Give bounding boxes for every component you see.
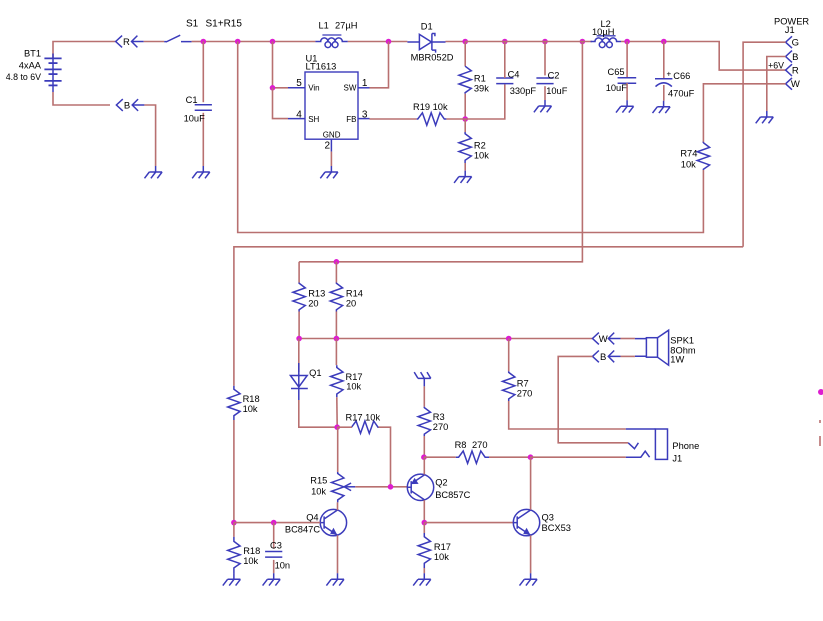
node (clipped, right edge) [818, 389, 823, 395]
op-amp U1 LT1613 box [305, 72, 358, 139]
wire W rail to R17 [335, 339, 337, 366]
svg-text:10k: 10k [243, 556, 258, 566]
svg-text:S1: S1 [186, 19, 199, 30]
wire W rail to Q1 [298, 339, 300, 373]
capacitor C3 [265, 552, 282, 558]
wire rail to C4 top [504, 42, 506, 79]
speaker SPK1 [635, 339, 647, 357]
inductor L2 [597, 35, 616, 37]
capacitor C1 [195, 105, 212, 111]
wire to R13 [298, 262, 300, 283]
junction R3/Q2/R8 [421, 454, 427, 460]
wire wiper to Q2 base [355, 486, 407, 488]
svg-text:S1+R15: S1+R15 [206, 19, 243, 30]
svg-text:L1: L1 [319, 21, 329, 31]
svg-text:C4: C4 [508, 69, 520, 79]
svg-text:J1: J1 [785, 25, 795, 35]
wire flag W to speaker [621, 338, 635, 340]
pin B (J1) [786, 51, 792, 63]
svg-text:D1: D1 [421, 22, 433, 32]
svg-text:270: 270 [433, 422, 449, 432]
wire node to Q4 base [234, 522, 320, 524]
wire node to Q3 base [424, 522, 513, 524]
flag R (battery +) [116, 36, 144, 48]
capacitor C4 [496, 78, 513, 84]
resistor R18 (lower) [228, 537, 240, 574]
svg-text:20: 20 [308, 298, 318, 308]
wire Q3 emitter to ground [530, 535, 532, 573]
wire C65 to ground [626, 83, 628, 100]
resistor R13 [293, 283, 305, 312]
junction R17/R15 [334, 424, 340, 430]
wire switch to node VCC [192, 41, 204, 43]
transistor Q3 BCX53 [513, 509, 539, 535]
svg-text:R3: R3 [433, 412, 445, 422]
svg-text:J1: J1 [672, 453, 682, 463]
ground (U1) [320, 166, 338, 178]
junction C66/rail [661, 39, 667, 45]
wire C1 to ground [202, 113, 204, 166]
pin W (J1) [786, 78, 792, 90]
wiper arrow R15 [344, 486, 355, 488]
svg-text:SW: SW [344, 83, 357, 92]
svg-text:Phone: Phone [672, 441, 699, 451]
svg-text:R1: R1 [474, 74, 486, 84]
wire node to R18 lower [233, 523, 235, 537]
junction R14/R17 [334, 336, 340, 342]
resistor R14 [330, 283, 342, 312]
wire U1 GND to ground [330, 152, 332, 166]
svg-text:Vin: Vin [308, 83, 319, 92]
svg-text:Q3: Q3 [542, 513, 554, 523]
ground (C66) [653, 101, 671, 113]
wire node to Q3 collector [530, 457, 532, 510]
svg-text:10uF: 10uF [546, 86, 568, 96]
wire node to phone jack sleeve [531, 456, 626, 458]
flag W (speaker) [593, 333, 621, 345]
svg-text:10n: 10n [275, 561, 291, 571]
svg-text:R: R [792, 66, 799, 77]
svg-text:270: 270 [472, 440, 488, 450]
wire node to R8 [424, 456, 456, 458]
svg-text:MBR052D: MBR052D [411, 53, 454, 63]
ground (C2) [534, 100, 552, 112]
svg-text:3: 3 [362, 110, 368, 121]
wire ground to R3 [423, 386, 425, 406]
wire flag R to switch S1 [144, 41, 165, 43]
junction C4/rail [502, 39, 508, 45]
svg-text:4xAA: 4xAA [19, 61, 42, 71]
junction loop-A/VCC [235, 39, 241, 45]
svg-text:BT1: BT1 [24, 49, 41, 59]
svg-text:4: 4 [296, 110, 302, 121]
wire (clipped stub) [819, 420, 821, 423]
junction R14 top [334, 259, 340, 265]
resistor R8 [456, 451, 489, 463]
wire R3 to R8 node [423, 436, 425, 457]
wire B pin to ground [767, 57, 786, 112]
svg-text:10k: 10k [474, 151, 489, 161]
svg-text:BC847C: BC847C [285, 524, 320, 534]
junction R18/C3 [231, 520, 237, 526]
svg-text:R7: R7 [517, 379, 529, 389]
ground (inverted, R3 top) [414, 372, 431, 386]
junction R1/rail [462, 39, 468, 45]
svg-text:R2: R2 [474, 141, 486, 151]
svg-text:1W: 1W [670, 355, 684, 365]
svg-text:10µH: 10µH [592, 27, 614, 37]
wire node to R17h [337, 426, 352, 428]
svg-text:C2: C2 [548, 70, 560, 80]
pin 5 Vin [288, 87, 305, 89]
wire Q4 emitter to ground [337, 535, 339, 573]
svg-text:Q4: Q4 [306, 512, 318, 522]
wire Q2 collector down [423, 500, 425, 522]
junction C2/rail [542, 39, 548, 45]
diode Q1 [290, 363, 307, 400]
capacitor C66 (polarized) [655, 79, 672, 87]
svg-text:27µH: 27µH [335, 21, 357, 31]
svg-text:R17 10k: R17 10k [346, 413, 381, 423]
svg-text:R8: R8 [455, 440, 467, 450]
svg-text:+6V: +6V [768, 60, 784, 70]
wire R19 to node [446, 118, 465, 120]
svg-text:10k: 10k [434, 552, 449, 562]
svg-text:SPK1: SPK1 [670, 336, 694, 346]
wire Vin to SH [273, 88, 289, 119]
svg-text:2: 2 [324, 141, 330, 152]
wire R7 to phone jack tip [509, 401, 626, 429]
svg-text:Q1: Q1 [309, 368, 321, 378]
pin 4 SH [288, 118, 305, 120]
pin 1 SW [358, 87, 370, 89]
wire (clipped segment) [819, 436, 821, 446]
svg-text:B: B [124, 100, 130, 111]
svg-text:4.8 to 6V: 4.8 to 6V [6, 72, 41, 82]
resistor R17 (upper) [331, 365, 343, 397]
svg-text:5: 5 [296, 78, 302, 89]
svg-text:Q2: Q2 [435, 477, 447, 487]
ground (R18) [223, 573, 241, 585]
resistor R74 [697, 143, 709, 170]
svg-text:BC857C: BC857C [435, 490, 470, 500]
capacitor C2 [536, 78, 553, 84]
wire D1 to R1 [446, 41, 466, 43]
resistor R15 (pot) [332, 472, 344, 502]
resistor R2 [459, 132, 471, 163]
resistor R17 (lower) [418, 533, 430, 568]
ground (B pin) [756, 111, 774, 123]
svg-text:10k: 10k [243, 404, 258, 414]
svg-text:R18: R18 [243, 546, 260, 556]
wire battery + to flag R [53, 42, 116, 59]
wire node to R2 [464, 119, 466, 132]
svg-text:W: W [599, 334, 608, 345]
svg-text:C1: C1 [186, 95, 198, 105]
pin 2 GND [330, 139, 332, 151]
switch S1 [164, 35, 191, 42]
pin 3 FB [358, 118, 370, 120]
svg-text:R19 10k: R19 10k [413, 102, 448, 112]
wire node to C3 [273, 523, 275, 549]
wire VCC to C1 [202, 42, 204, 103]
wire R74 loop to VCC rail [238, 42, 704, 233]
svg-text:BCX53: BCX53 [542, 523, 571, 533]
wire C2 to ground [544, 86, 546, 100]
wire battery - to flag B [53, 92, 110, 105]
svg-text:R13: R13 [308, 288, 325, 298]
resistor R17 (horizontal) [352, 421, 379, 433]
svg-text:10k: 10k [311, 486, 326, 496]
wire C3 to ground [273, 560, 275, 573]
wire R8 to Q3 node [489, 456, 531, 458]
wire node to C4 bottom [465, 84, 505, 119]
svg-text:GND: GND [323, 130, 341, 139]
pin R (J1) [786, 64, 792, 76]
wire VCC to Vin [273, 42, 289, 88]
svg-text:R18: R18 [243, 394, 260, 404]
resistor R1 [459, 66, 471, 94]
wire L1 to D1 [348, 41, 408, 43]
resistor R7 [503, 371, 515, 401]
wire to R14 [335, 262, 337, 283]
svg-text:LT1613: LT1613 [306, 61, 337, 71]
junction Q2/R17/Q3 [422, 520, 428, 526]
wire R1 to FB node [464, 94, 466, 119]
ground (C1) [192, 166, 210, 178]
transistor Q4 BC847C [320, 509, 346, 535]
svg-text:R17: R17 [434, 542, 451, 552]
junction R1/R2/R19/C4 [462, 116, 468, 122]
wire R17 to ground [423, 568, 425, 573]
junction R8/Q3 [528, 454, 534, 460]
junction C1/VCC [201, 39, 207, 45]
svg-text:C66: C66 [673, 71, 690, 81]
wire R15 to Q4 collector [337, 502, 339, 510]
ground (Q3) [520, 573, 538, 585]
wire G pin down (net G) [743, 42, 786, 247]
svg-text:B: B [792, 52, 798, 63]
wire rail to R1 [464, 42, 466, 67]
svg-text:10k: 10k [346, 381, 361, 391]
svg-text:270: 270 [517, 388, 533, 398]
wire R18 to base node [233, 420, 235, 523]
junction C3 top [271, 520, 277, 526]
ground (battery -) [145, 166, 163, 178]
svg-text:R74: R74 [680, 149, 697, 159]
svg-text:R14: R14 [346, 288, 363, 298]
svg-text:R: R [123, 37, 130, 48]
resistor R3 [418, 407, 430, 436]
svg-text:G: G [792, 38, 799, 49]
svg-text:B: B [600, 352, 606, 363]
inductor L1 [322, 34, 341, 36]
junction wiper/R17h [388, 484, 394, 490]
wire FB to R19 [370, 118, 417, 120]
junction C65/rail [624, 39, 630, 45]
wire rail D1..L2 [465, 41, 592, 43]
wire W rail to speaker flag [299, 338, 592, 340]
wire net G to R18 [234, 247, 743, 386]
svg-text:W: W [791, 79, 800, 90]
wire rail to C66 [663, 42, 665, 79]
wire R8 node to Q2 emitter [423, 457, 425, 474]
pin G (J1) [786, 36, 792, 48]
wire VCC rail to L1 [203, 41, 315, 43]
svg-text:10uF: 10uF [184, 114, 206, 124]
wire R2 to ground [464, 163, 466, 171]
wire R17 to node [336, 397, 338, 427]
resistor R18 (upper) [228, 386, 240, 420]
svg-text:SH: SH [308, 115, 319, 124]
junction SW/D1 [386, 39, 392, 45]
battery BT1 [52, 54, 54, 93]
svg-text:20: 20 [346, 298, 356, 308]
wire node to R17 [423, 523, 425, 533]
wire W pin to R74 [703, 84, 785, 143]
svg-text:R17: R17 [346, 372, 363, 382]
wire C66 to ground [663, 85, 665, 101]
wire R13 to W rail [298, 312, 300, 339]
wire R17h down to wiper net [379, 427, 391, 487]
ground (R2) [454, 171, 472, 183]
ground (C65) [616, 100, 634, 112]
diode D1 MBR052D [407, 34, 445, 53]
svg-text:470uF: 470uF [668, 88, 695, 98]
wire SW to rail [370, 42, 389, 88]
wire Q1 to R17 node [299, 400, 337, 427]
svg-text:1: 1 [362, 78, 368, 89]
flag B (speaker) [593, 351, 621, 363]
svg-text:10k: 10k [681, 160, 696, 170]
wire R14 to W rail [335, 312, 337, 339]
flag B (battery -) [116, 99, 144, 111]
ground (Q4) [326, 573, 344, 585]
wire speaker B to phone jack switch [558, 356, 628, 442]
wire VCC down to R13/R14 top [299, 42, 582, 262]
wire flag B to speaker [621, 355, 635, 357]
wire W rail to R7 [508, 339, 510, 372]
svg-text:+: + [667, 70, 672, 79]
junction Vin/VCC [270, 39, 276, 45]
connector Phone J1 [626, 428, 656, 430]
junction Vin/SH [270, 85, 276, 91]
ground (C3) [263, 573, 281, 585]
wire rail to C2 [544, 42, 546, 76]
svg-text:330pF: 330pF [510, 86, 537, 96]
ground (R17) [413, 573, 431, 585]
svg-text:FB: FB [346, 115, 356, 124]
junction R13/Q1 [296, 336, 302, 342]
wire rail to C65 [626, 42, 628, 79]
svg-text:C65: C65 [608, 67, 625, 77]
wire node to R15 [337, 427, 339, 472]
junction R7/W rail [506, 336, 512, 342]
capacitor C65 [618, 78, 637, 84]
junction loop down/rail [580, 39, 586, 45]
transistor Q2 BC857C [407, 474, 433, 500]
svg-text:10uF: 10uF [606, 83, 628, 93]
svg-text:39k: 39k [474, 84, 489, 94]
svg-text:C3: C3 [270, 540, 282, 550]
resistor R19 [417, 113, 447, 125]
svg-text:R15: R15 [310, 476, 327, 486]
wire flag B to ground [144, 105, 155, 166]
wire L2 to +6V R pin [621, 42, 787, 71]
